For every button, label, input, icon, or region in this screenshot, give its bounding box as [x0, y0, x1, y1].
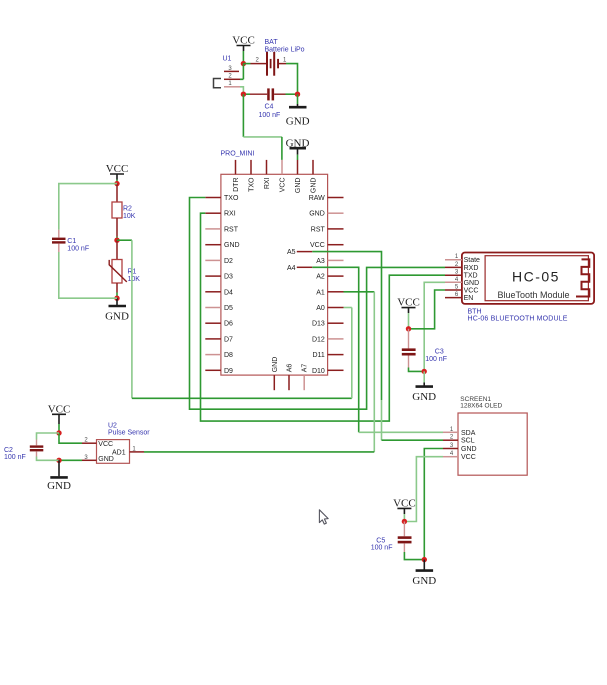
pin 4 GND	[445, 281, 462, 283]
svg-text:D6: D6	[224, 321, 233, 328]
wire divider mid node to A0	[117, 239, 132, 241]
svg-text:100 nF: 100 nF	[371, 545, 393, 552]
wire U1 pin2 to VCC node	[240, 64, 243, 80]
wire OLED GND to C5 ground node	[424, 449, 443, 560]
capacitor C4	[250, 88, 286, 119]
svg-text:BAT: BAT	[265, 39, 279, 46]
svg-text:VCC: VCC	[310, 242, 325, 249]
svg-text:100 nF: 100 nF	[67, 245, 89, 252]
svg-text:TXO: TXO	[224, 195, 239, 202]
node U1 pin1/C4	[241, 92, 246, 97]
wire A5 to OLED SCL	[312, 252, 381, 400]
svg-text:TXO: TXO	[249, 177, 256, 192]
svg-text:100 nF: 100 nF	[259, 112, 281, 119]
pin DTR (top)	[235, 160, 237, 174]
wire node to ground	[297, 94, 299, 104]
node C3 GND	[422, 369, 427, 374]
power symbol VCC (pulse)	[52, 414, 66, 424]
connector U1	[214, 56, 241, 88]
svg-text:VCC: VCC	[98, 441, 113, 448]
display SCREEN1 128X64 OLED	[458, 396, 527, 475]
right pins RAW GND RST VCC A3 A2 A1 A0 D13-D10	[309, 195, 344, 375]
svg-text:GND: GND	[98, 456, 114, 463]
svg-text:128X64 OLED: 128X64 OLED	[460, 403, 502, 410]
pin GND (top 2)	[312, 160, 314, 174]
ground GND (pulse)	[47, 460, 71, 492]
svg-text:10K: 10K	[123, 213, 136, 220]
svg-text:PRO_MINI: PRO_MINI	[221, 151, 255, 158]
capacitor C3	[402, 329, 447, 368]
svg-text:Batterie LiPo: Batterie LiPo	[265, 47, 305, 54]
svg-text:100 nF: 100 nF	[425, 356, 447, 363]
wire VCC to node	[408, 313, 410, 329]
svg-text:D8: D8	[224, 352, 233, 359]
node C5 GND	[422, 557, 427, 562]
svg-text:D10: D10	[312, 368, 325, 375]
microcontroller PRO_MINI	[221, 151, 328, 376]
wire C5 bottom to ground node	[404, 552, 424, 560]
svg-text:GND: GND	[412, 575, 436, 587]
svg-text:SDA: SDA	[461, 430, 476, 437]
pin TXO (top)	[250, 160, 252, 174]
svg-text:10K: 10K	[128, 276, 141, 283]
svg-text:GND: GND	[461, 446, 477, 453]
svg-text:GND: GND	[412, 391, 436, 403]
pin 2 RXD	[445, 266, 462, 268]
pin 4 VCC	[443, 456, 458, 458]
wire VCC node to pin 2	[59, 433, 82, 443]
svg-text:VCC: VCC	[397, 297, 420, 309]
svg-text:VCC: VCC	[232, 35, 255, 47]
svg-text:U1: U1	[223, 56, 232, 63]
svg-text:VCC: VCC	[461, 454, 476, 461]
pin VCC (top)	[281, 160, 283, 174]
power symbol VCC (C3)	[402, 308, 416, 313]
bluetooth module BTH HC-05	[462, 253, 594, 323]
svg-text:GND: GND	[311, 178, 318, 194]
pin 1 SDA	[443, 431, 458, 433]
wire C2 bottom branch	[37, 457, 60, 461]
svg-text:D2: D2	[224, 258, 233, 265]
svg-text:D4: D4	[224, 289, 233, 296]
svg-text:A5: A5	[287, 249, 296, 256]
wire TXO to HC-05 RXD	[190, 198, 446, 410]
node R1/C1/GND	[114, 296, 119, 301]
power symbol VCC (left)	[110, 174, 124, 180]
ground GND (C3)	[412, 371, 436, 402]
pin 2 SCL	[443, 439, 458, 441]
svg-text:GND: GND	[105, 311, 129, 323]
svg-text:D3: D3	[224, 274, 233, 281]
node VCC/R2/C1	[114, 181, 119, 186]
capacitor C5	[371, 522, 412, 553]
pin GND (top 1)	[297, 160, 299, 174]
sensor U2 Pulse Sensor	[82, 423, 150, 464]
svg-text:RXD: RXD	[464, 265, 479, 272]
svg-text:GND: GND	[309, 211, 325, 218]
pin 3 GND	[443, 448, 458, 450]
wire BAT pin1 to GND node	[286, 64, 298, 95]
svg-text:Pulse Sensor: Pulse Sensor	[108, 429, 150, 436]
svg-text:A6: A6	[287, 364, 294, 373]
thermistor R1	[109, 240, 140, 292]
svg-text:A0: A0	[316, 305, 325, 312]
svg-text:RAW: RAW	[309, 195, 325, 202]
svg-text:RXI: RXI	[224, 211, 236, 218]
wire U1 pin1 down to C4 node	[240, 87, 243, 94]
svg-text:A1: A1	[316, 289, 325, 296]
bottom pins GND A6 A7	[272, 357, 309, 390]
pin 3 TXD	[445, 274, 462, 276]
node C5 VCC	[402, 519, 407, 524]
svg-text:GND: GND	[47, 480, 71, 492]
wire R2 to node	[116, 237, 118, 241]
ground GND (battery)	[286, 104, 310, 128]
battery BAT Batterie LiPo	[251, 39, 305, 76]
node pulse GND	[56, 458, 61, 463]
svg-text:DTR: DTR	[233, 178, 240, 192]
svg-text:RST: RST	[311, 226, 326, 233]
svg-text:D5: D5	[224, 305, 233, 312]
wire C4 right to node	[286, 93, 298, 95]
pin RXI (top)	[266, 160, 268, 174]
svg-text:RXI: RXI	[264, 177, 271, 189]
svg-text:VCC: VCC	[106, 163, 129, 175]
wire R1 to bottom node	[116, 293, 118, 299]
svg-text:A3: A3	[316, 258, 325, 265]
svg-text:GND: GND	[224, 242, 240, 249]
svg-text:C5: C5	[376, 537, 385, 544]
node pulse VCC	[56, 430, 61, 435]
wire A4 to OLED SDA	[312, 267, 358, 432]
svg-text:HC-05: HC-05	[512, 269, 560, 285]
wire GND symbol to GND pin	[297, 155, 299, 160]
left pins TXO RXI RST GND D2-D9	[205, 195, 239, 375]
power symbol VCC (C5)	[397, 508, 411, 514]
wire C4 left to node	[243, 93, 250, 95]
wire OLED VCC to C5 vcc node	[404, 457, 443, 522]
svg-text:State: State	[464, 257, 480, 264]
wire VCC to node	[116, 180, 118, 184]
svg-text:D13: D13	[312, 321, 325, 328]
wire VCC to node	[403, 514, 405, 522]
svg-text:EN: EN	[464, 295, 474, 302]
wire C3 bottom to ground node	[409, 368, 425, 372]
svg-text:VCC: VCC	[48, 403, 71, 415]
svg-text:GND: GND	[272, 357, 279, 373]
svg-text:A7: A7	[302, 364, 309, 373]
svg-text:BlueTooth Module: BlueTooth Module	[497, 290, 569, 300]
svg-text:R2: R2	[123, 206, 132, 213]
pin 5 VCC	[445, 289, 462, 291]
svg-text:C1: C1	[67, 238, 76, 245]
svg-text:C4: C4	[265, 104, 274, 111]
svg-text:HC-06 BLUETOOTH MODULE: HC-06 BLUETOOTH MODULE	[468, 316, 568, 323]
svg-text:SCL: SCL	[461, 438, 475, 445]
ground GND (C5)	[412, 560, 436, 587]
svg-text:GND: GND	[295, 178, 302, 194]
antenna meander	[576, 259, 589, 296]
svg-text:TXD: TXD	[464, 273, 478, 280]
node BAT-/C4/GND	[295, 92, 300, 97]
capacitor C1	[52, 230, 89, 253]
wire VCC node to BAT pin2	[243, 63, 250, 65]
svg-text:BTH: BTH	[468, 308, 482, 315]
wire VCC to node	[242, 51, 244, 64]
wire C2 top branch	[37, 433, 60, 440]
svg-text:A2: A2	[316, 274, 325, 281]
node VCC/BAT/U1 junction	[241, 61, 246, 66]
svg-text:GND: GND	[464, 280, 480, 287]
svg-text:100 nF: 100 nF	[4, 454, 26, 461]
ground GND (top of PRO_MINI, mirrored)	[286, 137, 310, 154]
svg-text:GND: GND	[286, 116, 310, 128]
svg-text:VCC: VCC	[280, 178, 287, 193]
svg-text:C3: C3	[435, 348, 444, 355]
wire VCC net down to PRO_MINI VCC pin	[242, 94, 244, 137]
pin 6 EN	[445, 297, 462, 299]
svg-text:RST: RST	[224, 226, 239, 233]
wire C1 bottom branch	[59, 252, 117, 298]
svg-text:AD1: AD1	[112, 450, 126, 457]
svg-text:D12: D12	[312, 336, 325, 343]
wire HC-05 VCC to C3 vcc node	[409, 290, 446, 329]
svg-text:VCC: VCC	[464, 288, 479, 295]
wire VCC to node	[58, 424, 60, 433]
svg-text:D9: D9	[224, 368, 233, 375]
resistor R2	[112, 184, 136, 237]
node C3 VCC	[406, 326, 411, 331]
ground GND (left)	[105, 298, 129, 322]
wire C1 top branch	[59, 184, 117, 230]
svg-text:VCC: VCC	[393, 497, 416, 509]
svg-text:A4: A4	[287, 265, 296, 272]
mouse cursor	[319, 510, 328, 524]
wire HC-05 GND to C3 ground node	[424, 282, 445, 371]
svg-text:D11: D11	[312, 352, 324, 359]
pin 1 State	[445, 259, 462, 261]
wire GND node to pin 3	[59, 459, 82, 461]
wire A1 to pulse sensor AD1	[344, 291, 375, 293]
svg-text:D7: D7	[224, 336, 233, 343]
wire RXI to HC-05 TXD	[201, 213, 446, 421]
capacitor C2	[4, 440, 43, 461]
node R2/R1/A0	[114, 238, 119, 243]
power symbol VCC (top)	[237, 46, 251, 52]
